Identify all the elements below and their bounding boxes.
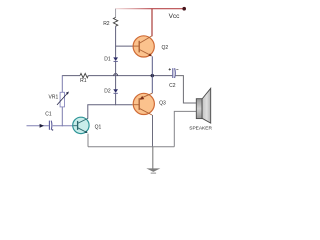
C1 polarity mark (52, 129, 54, 131)
svg-text:C2: C2 (169, 83, 176, 89)
speaker LS1 (196, 88, 210, 123)
svg-text:Q2: Q2 (161, 45, 168, 51)
svg-text:D2: D2 (104, 89, 111, 95)
wire D2 to Q3 base node (115, 94, 117, 106)
wire red vertical to Q2 collector (151, 9, 153, 37)
wire rail to speaker bottom (174, 111, 196, 146)
wire VR1 bottom lead (61, 107, 63, 126)
wire input line (27, 125, 49, 127)
transistor Q3 (132, 93, 154, 115)
wire D1 to D2 (115, 62, 117, 90)
diode D1 (113, 57, 118, 61)
svg-text:D1: D1 (104, 57, 111, 63)
svg-text:VR1: VR1 (49, 94, 59, 100)
terminal dot Vcc (182, 7, 186, 11)
wire VR1 top lead (61, 75, 63, 92)
resistor R2 (113, 9, 117, 27)
wire Q2 emitter to output node (151, 56, 153, 75)
svg-text:R1: R1 (80, 78, 87, 84)
svg-text:Q3: Q3 (159, 101, 166, 107)
wire corner to R1 (62, 75, 80, 77)
transistor Q2 (133, 36, 154, 57)
wire C2 to speaker top corner (175, 76, 196, 103)
junction output node (151, 74, 154, 77)
resistor R1 (80, 73, 88, 77)
wire output node to Q3 emitter (151, 76, 153, 94)
svg-text:C1: C1 (45, 112, 52, 118)
wire output node to C2 (152, 75, 172, 77)
ground rail (88, 146, 174, 148)
svg-text:SPEAKER: SPEAKER (189, 125, 212, 131)
transistor Q1 (73, 117, 89, 133)
variable resistor VR1 (57, 92, 69, 107)
capacitor C1 (49, 121, 52, 130)
wire C1 to Q1 base (53, 125, 73, 127)
diode D2 (113, 89, 118, 93)
wire Q2 base (116, 45, 134, 47)
ground (146, 147, 160, 173)
wire Q3 base node horizontal (88, 105, 132, 119)
wire R1 to output node (88, 75, 152, 77)
input signal arrow (40, 124, 44, 128)
wire hop over bias chain (114, 74, 118, 76)
capacitor C2 (169, 68, 179, 78)
wire Q1 emitter to rail (87, 134, 89, 147)
wire Q3 collector to ground rail (152, 115, 154, 147)
svg-text:Q1: Q1 (95, 124, 102, 130)
svg-text:Vcc: Vcc (169, 13, 181, 20)
power rail Vcc (red) (115, 8, 152, 10)
wire R2 to Q2 base node (115, 26, 117, 57)
svg-text:R2: R2 (103, 21, 110, 27)
